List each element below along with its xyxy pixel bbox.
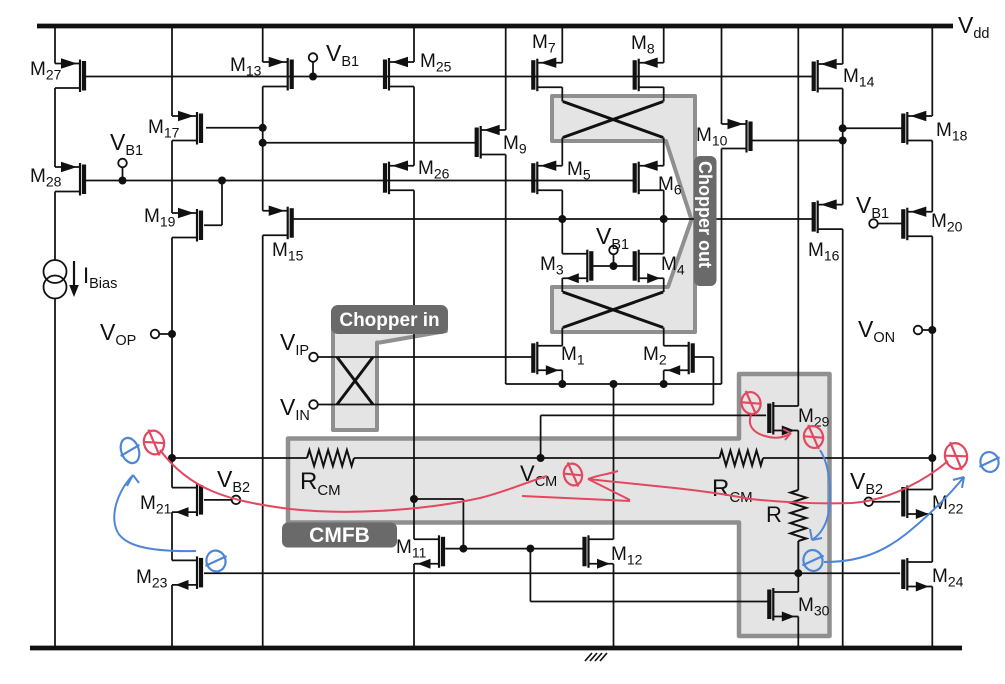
wire column C top (Vdd to M13) [262,26,264,62]
CMFB label box [282,523,397,548]
wire column I (M30 to ground) [797,617,799,649]
node VB1 top [309,73,317,81]
node VON [928,326,936,334]
VB1 stub top [312,62,314,77]
svg-text:CMFB: CMFB [309,524,370,547]
wire column I top (Vdd to M29) [797,26,799,406]
wire column D (M11 to ground) [413,564,415,648]
wire column A (M28 to Ibias) [54,192,56,261]
wire column G (M8 to chopper-out) [663,87,665,101]
terminal VB1 top [309,53,318,62]
terminal VB1 left [118,159,127,168]
VB1 stub mid (M3 M4) [613,254,615,266]
wire column J (M16 to ground) [842,229,844,648]
VB1 stub left [122,167,124,180]
wire column G (M2 to tail) [663,370,665,384]
M2 gate jog vertical [712,357,714,405]
wire column F (M1 to tail) [561,370,563,384]
transistor M22 [901,486,932,520]
M29 gate wire [541,414,767,416]
wire column C (M13 to M15) [262,87,264,211]
current source IBias [44,260,67,299]
VB1b bias line (M28 M19 M26 M5 M6 gates) [85,180,634,182]
wire column G (M6 to M4) [663,190,665,254]
transistor M13 [263,57,294,91]
chopper-in X switch [337,357,373,405]
svg-text:Chopper out: Chopper out [695,161,715,268]
node VOP [168,330,176,338]
annotation red plus left [141,426,168,458]
transistor M15 [263,206,294,240]
annotation blue minus M23 [202,548,230,574]
VOP stub [159,333,172,335]
node M18 gate junction [839,124,847,132]
node M17 gate junction [259,124,267,132]
wire column K (M18 to M20) [931,141,933,212]
M19 gate stub vertical [221,181,223,226]
wire column I (M29 to R) [797,431,799,491]
wire column G (chopper-out2 to M2) [663,328,665,346]
node R bottom junction [794,569,802,577]
annotation blue minus below R [799,547,827,573]
wire column F (chopper-out2 to M1) [561,328,563,346]
transistor M5 [531,161,562,195]
M10 gate wire [751,140,843,142]
transistor M23 [172,556,203,590]
wire column F (M5 to M3) [561,190,563,254]
VB1 bias line (M27 M13 M25 M7 M8 M14 gates) [85,76,813,78]
terminal VB1 mid [609,246,618,255]
terminal VON [914,326,923,335]
transistor M1 [531,342,562,376]
annotation red plus M29 source [801,422,826,452]
annotation red hook at M29 [750,415,791,438]
transistor M14 [812,59,843,93]
wire column C (M15 to ground) [262,235,264,648]
VIN line [318,404,714,406]
M17 gate wire [206,127,263,129]
M3 M4 gate wire [592,265,633,267]
wire column F (chopper-out to M5) [561,138,563,166]
wire column G (M4 to chopper-out2) [663,278,665,292]
wire column B top (Vdd to M17) [171,26,173,116]
VON stub [922,329,932,331]
terminal VB1 right M20 [869,219,878,228]
terminal VIP [309,353,318,362]
wire column G (chopper-out to M6) [663,138,665,166]
transistor M25 [383,57,414,91]
ground symbol [585,653,607,661]
transistor M27 [55,58,86,92]
M19 gate stub horizontal [204,224,222,226]
transistor M3 [562,250,593,284]
wire column H (M10 to tail) [721,149,723,385]
node VCM [537,454,545,462]
M12 source to ground [613,564,615,648]
wire column G top (Vdd to M8) [663,26,665,63]
annotation red arrow at VCM [522,471,630,501]
node M12 gate junction [526,545,534,553]
transistor M6 [633,161,664,195]
node RCM right end [928,454,936,462]
chopper-out shaded region [552,96,695,332]
Chopper out label box [694,156,717,286]
wire column A (Ibias to ground) [54,298,56,648]
node M11 gate junction [459,545,467,553]
M12 mirror branch vertical [529,549,531,602]
annotation blue curve left [114,475,196,551]
CMFB branch vertical [462,499,464,549]
wire column B (M23 to ground) [171,585,173,648]
wire column B (M21 to M23) [171,512,173,560]
transistor M29 [767,402,798,436]
RCM line to VCM node [354,457,541,459]
resistor R [790,490,806,541]
svg-text:Chopper in: Chopper in [339,310,439,331]
node RCM left end [168,454,176,462]
annotation red curve main right part [588,461,948,503]
transistor M16 [812,199,843,233]
wire column J (M14 to M16) [842,89,844,205]
annotation red plus at VCM [561,460,585,490]
CMFB branch horizontal (M11 drain to gate column) [414,498,463,500]
M30 gate wire [530,601,768,603]
transistor M30 [767,588,798,622]
transistor M4 [633,250,664,284]
node cascode left [558,215,566,223]
wire column F (M3 to chopper-out2) [561,278,563,292]
annotation blue minus right [976,449,1002,474]
CMFB shaded region [288,374,830,636]
node cascode right [660,215,668,223]
wire column D top (Vdd to M25) [413,26,415,62]
wire column I (R to M30) [797,541,799,592]
RCM line left segment [172,457,307,459]
node tail mid [610,380,618,388]
VCM sense vertical [540,415,542,458]
node M9 gate junction [259,139,267,147]
transistor M17 [172,111,203,145]
wire column F (M7 to chopper-out) [561,87,563,101]
wire column D (M26 to M11) [413,190,415,539]
wire column J top (Vdd to M14) [842,26,844,64]
transistor M19 [172,208,203,242]
node VB1 mid junction [610,262,618,270]
M20 gate wire [878,223,903,225]
annotation blue minus left [115,435,144,467]
transistor M2 [664,342,695,376]
cascode gate line (M15 to M16) [293,218,813,220]
wire column K (M20 to M22) VON net [931,236,933,489]
chopper-out upper X switch [563,102,663,138]
node M11 drain branch [410,495,418,503]
M9 gate wire [263,142,476,144]
transistor M11 [414,535,445,569]
VIP line to M1 gate [318,356,533,358]
chopper-out lower X switch [563,292,663,328]
wire column A (M27 to M28) [54,88,56,167]
tail rail of input pair [506,383,722,385]
node M19 gate junction [218,177,226,185]
terminal VB2 left [232,496,241,505]
ground rail [30,646,962,651]
annotation blue curve M29 down [812,450,830,540]
node tail right [660,380,668,388]
wire column D (M25 to M26) [413,87,415,166]
terminal VB2 right [864,497,873,506]
M18 gate wire [843,127,903,129]
annotation blue curve bottom right [824,477,964,562]
M21 gate wire [204,499,232,501]
transistor M8 [633,58,664,92]
R bottom to M24 gate-line junction [797,541,799,573]
wire column B (M19 to M21) VOP net [171,238,173,488]
transistor M26 [383,161,414,195]
wire column H top (Vdd to M10) [721,26,723,124]
Chopper in label box [331,305,448,334]
node M10 gate junction [839,137,847,145]
resistor RCM left [307,450,354,466]
wire column F top (Vdd to M7) [561,26,563,63]
node VB1 left [119,177,127,185]
M11 M12 gate line [445,548,583,550]
IBias arrow [73,261,75,288]
M12 drain vertical (tail to M12) [613,384,615,539]
Vdd rail [37,24,953,29]
svg-text:R: R [766,502,782,527]
M2 gate wire [694,356,714,358]
wire column B (M17 to M19) [171,141,173,214]
transistor M9 [475,125,506,159]
transistor M7 [531,58,562,92]
wire column A top (Vdd to M27) [54,26,56,64]
M22 gate wire [873,501,900,503]
terminal VIN [309,400,318,409]
annotation red plus right [941,439,970,474]
wire column K (M22 to M24) [931,514,933,562]
wire column E top (Vdd to M9) [505,26,507,130]
transistor M28 [55,162,86,196]
annotation red plus M29 top [738,388,763,418]
chopper-in shaded region [333,312,446,430]
transistor M24 [901,558,932,592]
wire column K (M24 to ground) [931,587,933,649]
transistor M20 [901,207,932,241]
RCM line VCM to right zigzag [541,457,720,459]
wire column K top (Vdd to M18) [931,26,933,116]
node tail left [558,380,566,388]
transistor M12 [582,535,613,569]
RCM line right segment [763,457,932,459]
terminal VOP [151,330,160,339]
transistor M18 [901,111,932,145]
wire column E (M9 to tail) [505,155,507,385]
annotation red curve main left part [160,450,547,512]
M23 M24 gate line [204,572,900,574]
transistor M21 [172,484,203,517]
transistor M10 [722,119,753,153]
resistor RCM right [720,451,764,466]
